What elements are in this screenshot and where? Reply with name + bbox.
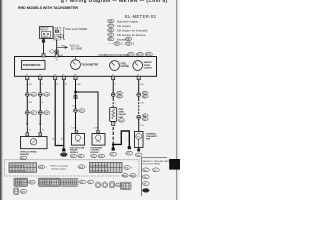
connector face E1 bbox=[121, 182, 132, 190]
note: To EL-ILL / EL-CHIME bbox=[70, 46, 83, 51]
reference band dotted border bbox=[5, 160, 140, 176]
wire temp gauge vertical bbox=[138, 80, 140, 132]
legend line 6: asterisk note bbox=[109, 42, 135, 46]
ground oval label dark bbox=[60, 153, 67, 157]
connector on temp wire row1 bbox=[137, 93, 141, 97]
C1 oval label bbox=[29, 180, 36, 184]
legend line 1: GA gasoline engine bbox=[108, 19, 139, 23]
svg-text:GAUGE: GAUGE bbox=[144, 66, 153, 69]
svg-text:REFER TO THE LAST PAGE: REFER TO THE LAST PAGE bbox=[143, 160, 171, 163]
B4 label bbox=[91, 147, 105, 158]
svg-text:CE: CE bbox=[109, 33, 113, 37]
svg-text:To EL-ILL,: To EL-ILL, bbox=[70, 46, 81, 48]
svg-text:F22: F22 bbox=[143, 115, 146, 117]
label Y/G bbox=[140, 84, 144, 86]
label w4 B lower bbox=[61, 138, 63, 140]
label Y/G low bbox=[140, 125, 144, 127]
meter top terminal stub left bbox=[42, 54, 45, 57]
oval label ground 1 bbox=[110, 152, 117, 156]
band connector grid block 1 bbox=[9, 163, 37, 173]
label L/OR w6 bbox=[93, 128, 98, 130]
svg-text:GA: GA bbox=[109, 19, 113, 23]
svg-text:GAUGE: GAUGE bbox=[118, 113, 126, 116]
junction dot fuel ground bbox=[112, 143, 115, 146]
svg-text:RHD MODELS WITH TACHOMETER: RHD MODELS WITH TACHOMETER bbox=[18, 6, 78, 10]
legend line 4: CD engine for Europe bbox=[108, 33, 146, 37]
meter bottom stub temp bbox=[137, 76, 140, 79]
wire w3 vertical long bbox=[55, 80, 64, 146]
svg-text:1 2 3 4 5: 1 2 3 4 5 bbox=[16, 181, 23, 183]
label P/B near meter entry bbox=[59, 55, 63, 57]
connector on fuel wire bbox=[111, 93, 115, 97]
oval label on w5 bbox=[79, 109, 85, 113]
connector oval M26 bbox=[145, 53, 152, 57]
svg-text:EL-METER-03: EL-METER-03 bbox=[125, 14, 156, 19]
wire w1 vertical bbox=[26, 80, 28, 124]
svg-text:1 2 3 4 5 6 7 8 9 10: 1 2 3 4 5 6 7 8 9 10 bbox=[90, 164, 108, 167]
thermal transmitter box bbox=[135, 132, 144, 148]
label Y/G below temp connector bbox=[140, 102, 144, 104]
water temp gauge bbox=[133, 61, 153, 71]
label Y below fuel connector bbox=[115, 102, 117, 104]
svg-text:: Except: : Except bbox=[115, 37, 126, 41]
combination meter box bbox=[15, 57, 157, 77]
refer oval F1 bbox=[142, 189, 149, 193]
meter bottom stub w4 bbox=[62, 76, 65, 79]
svg-text:F22: F22 bbox=[117, 96, 120, 98]
label L/OR w5 bbox=[72, 128, 77, 130]
svg-text:CE: CE bbox=[126, 37, 130, 41]
D1 oval label bbox=[80, 180, 86, 184]
svg-text:: Refer to last page: : Refer to last page bbox=[50, 165, 69, 168]
svg-text:SENSOR: SENSOR bbox=[20, 154, 29, 156]
svg-text:MODELS: MODELS bbox=[70, 152, 79, 154]
svg-text:Refer to EL-POWER.: Refer to EL-POWER. bbox=[66, 28, 88, 31]
vehicle speed sensor terminals bbox=[26, 133, 42, 136]
page title: RHD MODELS WITH TACHOMETER bbox=[18, 6, 78, 10]
svg-text:TER: TER bbox=[146, 139, 151, 141]
connector oval M24 bbox=[127, 53, 134, 57]
refer note text bbox=[143, 160, 171, 166]
pin numbers bbox=[26, 59, 139, 76]
wire w2 vertical bbox=[39, 80, 41, 124]
svg-text:2 ,: 2 , bbox=[121, 42, 124, 46]
connector square on w5 bbox=[74, 96, 77, 99]
svg-text:11 12 13 14 15 16: 11 12 13 14 15 16 bbox=[10, 170, 27, 173]
svg-text:M24: M24 bbox=[117, 93, 121, 95]
meter bottom stub w5 bbox=[74, 76, 77, 79]
svg-text:1 2 3 4 5 6 7 8: 1 2 3 4 5 6 7 8 bbox=[40, 181, 52, 183]
oval label w1 row1 bbox=[30, 93, 36, 97]
label w1 mid bbox=[29, 102, 33, 104]
connector on w2 row1 bbox=[38, 93, 42, 97]
fuse block dashed box bbox=[54, 27, 61, 40]
connector face D1 dark bbox=[61, 179, 79, 187]
branch wire to EL-ILL with arrow bbox=[57, 46, 68, 49]
wire w5 vertical bbox=[75, 80, 77, 131]
svg-text:: CD engine for Europe: : CD engine for Europe bbox=[115, 33, 146, 37]
svg-text:g / Wiring Diagram — METER — (: g / Wiring Diagram — METER — (Cont'd) bbox=[61, 0, 168, 3]
svg-text:9 10 11 12 13: 9 10 11 12 13 bbox=[40, 184, 51, 186]
meter top terminal stub right bbox=[55, 54, 58, 57]
vehicle speed sensor label bbox=[20, 151, 37, 160]
connector on ignition wire bbox=[42, 39, 45, 42]
fuel ground terminal 2 bbox=[128, 146, 131, 149]
svg-text:: CD engine: : CD engine bbox=[115, 24, 131, 28]
label w1 low bbox=[29, 130, 31, 132]
sender box B4 bbox=[92, 131, 105, 146]
D2 oval label bbox=[88, 180, 94, 184]
svg-text:ON/ST: ON/ST bbox=[43, 36, 48, 38]
refer box top line bbox=[141, 157, 167, 159]
band text block 2 bbox=[50, 165, 69, 171]
svg-text:P/B: P/B bbox=[59, 55, 63, 57]
svg-text:L/OR: L/OR bbox=[72, 128, 77, 130]
oval label thermal bbox=[135, 153, 142, 157]
diagram code EL-METER-03 bbox=[125, 14, 156, 19]
branch wire to w6 bbox=[76, 92, 99, 130]
meter bottom stub w1 bbox=[26, 76, 29, 79]
brace bracket bbox=[64, 27, 65, 39]
wire below fuel unit dashed bbox=[112, 125, 114, 143]
speedometer box bbox=[22, 61, 46, 70]
oval label w2 row2 bbox=[44, 111, 50, 115]
svg-text:GAUGE: GAUGE bbox=[121, 65, 130, 68]
oval label ground 2 bbox=[126, 151, 133, 155]
oval labels on fuel wire bbox=[117, 91, 123, 98]
svg-text:Y/G: Y/G bbox=[140, 125, 144, 127]
svg-text:L/W: L/W bbox=[77, 84, 81, 86]
connector oval label left of fuse wire bbox=[50, 50, 54, 53]
meter bottom stub w2 bbox=[39, 76, 42, 79]
page right edge line bbox=[176, 0, 178, 200]
wire from fuse down bbox=[56, 40, 58, 54]
w1 arrowhead into sensor bbox=[26, 123, 28, 133]
oval labels temp row1 bbox=[142, 91, 148, 98]
connector oval near fuse bbox=[59, 35, 64, 39]
connector on w1 row2 bbox=[25, 111, 29, 115]
meter bottom stub w3 bbox=[54, 76, 57, 79]
label w5 L/W bbox=[77, 84, 81, 86]
wire w4 vertical long bbox=[63, 80, 65, 149]
svg-text:TACHOMETER: TACHOMETER bbox=[82, 64, 99, 67]
band oval 1 bbox=[38, 165, 47, 169]
svg-text:L/OR: L/OR bbox=[93, 128, 98, 130]
connector circle on fuse wire bbox=[55, 50, 59, 54]
connector circle D3 bbox=[95, 182, 101, 188]
oval labels temp row2 bbox=[142, 114, 148, 121]
svg-text:FUEL: FUEL bbox=[121, 63, 128, 65]
svg-text:THERMAL: THERMAL bbox=[146, 132, 157, 135]
label w4 B bbox=[65, 84, 67, 86]
E group ovals bbox=[122, 174, 128, 178]
svg-text:TRANSMIT-: TRANSMIT- bbox=[146, 135, 158, 138]
legend line 2: CD engine bbox=[108, 24, 132, 28]
tachometer bbox=[71, 57, 99, 70]
connector face D5 bbox=[110, 182, 115, 188]
label P/B on branch bbox=[61, 45, 65, 47]
fuel gauge bbox=[110, 61, 130, 71]
meter bottom stub fuel bbox=[112, 76, 115, 79]
svg-text:Y/G: Y/G bbox=[140, 102, 144, 104]
svg-text:SPEEDOMETER: SPEEDOMETER bbox=[23, 65, 41, 67]
svg-text:EC: EC bbox=[109, 37, 113, 41]
C3 oval label bbox=[20, 190, 27, 194]
fuel tank gauge unit label bbox=[118, 109, 126, 122]
svg-text:F14: F14 bbox=[143, 119, 146, 121]
branch junction on w5 bbox=[74, 91, 76, 93]
legend line 3: CD engine for Australia bbox=[108, 28, 148, 32]
running header (clipped at top) bbox=[61, 0, 168, 3]
connector face C1 bbox=[14, 178, 28, 186]
fuel tank gauge unit (resistor) bbox=[110, 108, 117, 122]
svg-text:F22: F22 bbox=[143, 96, 146, 98]
svg-text:(FOLDOUT PAGE) .: (FOLDOUT PAGE) . bbox=[143, 162, 162, 165]
svg-text:EL: EL bbox=[171, 162, 177, 167]
thermal transmitter label bbox=[146, 132, 158, 140]
note: Refer to EL-POWER bbox=[66, 28, 88, 31]
label L/W mid bbox=[72, 105, 76, 107]
refer oval E1 bbox=[152, 168, 159, 172]
svg-text:(Foldout page) .: (Foldout page) . bbox=[52, 168, 68, 171]
wire from ignition switch down bbox=[43, 39, 45, 54]
label w3 B lower bbox=[52, 138, 54, 140]
svg-text:EL-CHIME: EL-CHIME bbox=[71, 49, 82, 51]
D5 oval label bbox=[116, 183, 122, 187]
svg-text:CD: CD bbox=[109, 24, 113, 28]
band oval 3 bbox=[124, 166, 130, 170]
svg-text:M24: M24 bbox=[143, 93, 147, 95]
B3 label bbox=[70, 146, 85, 158]
fuse 10A bbox=[54, 28, 61, 41]
refer oval E6 bbox=[142, 182, 149, 186]
svg-text:L/W: L/W bbox=[72, 105, 76, 107]
combination meter label bbox=[98, 53, 128, 57]
svg-text:(J/B): (J/B) bbox=[54, 38, 58, 40]
svg-text:G/Y: G/Y bbox=[29, 102, 33, 104]
ignition switch box bbox=[40, 27, 54, 39]
svg-text:1 2 3 4 5 6 7 8 9: 1 2 3 4 5 6 7 8 9 bbox=[10, 165, 25, 168]
refer oval M1 bbox=[142, 168, 151, 172]
w2 arrowhead into sensor bbox=[39, 123, 41, 133]
connector on w5 bbox=[74, 109, 78, 113]
connector circle D4 bbox=[102, 182, 108, 188]
svg-text:MODULE: MODULE bbox=[91, 152, 100, 154]
svg-text:G/Y: G/Y bbox=[29, 84, 33, 86]
connector face C3 small bbox=[14, 188, 19, 194]
svg-text:Y/G: Y/G bbox=[140, 84, 144, 86]
svg-text:26: 26 bbox=[56, 59, 58, 61]
fuel ground terminal 1 bbox=[112, 144, 115, 150]
svg-text:GA: GA bbox=[115, 42, 119, 46]
svg-text:4 5 6: 4 5 6 bbox=[122, 187, 126, 189]
sender box B3 bbox=[72, 131, 85, 146]
refer box left line bbox=[140, 158, 142, 196]
svg-text:6 7 8 9 0: 6 7 8 9 0 bbox=[16, 184, 23, 186]
EL section tab bbox=[169, 159, 180, 170]
label w2 G bbox=[42, 84, 44, 86]
label w2 low bbox=[42, 130, 44, 132]
svg-text:WATER: WATER bbox=[144, 61, 152, 64]
connector face C2 bbox=[39, 178, 61, 186]
label Y bbox=[115, 84, 117, 86]
refer oval M5 bbox=[142, 175, 149, 179]
fuel ground branch pi shape bbox=[113, 131, 129, 147]
connector on temp wire row2 bbox=[137, 115, 141, 119]
page left edge shadow bbox=[0, 0, 4, 200]
connector on w1 row1 bbox=[25, 93, 29, 97]
svg-text:CD: CD bbox=[126, 42, 130, 46]
connector on w2 row2 bbox=[38, 111, 42, 115]
svg-text:: CD engine for Australia: : CD engine for Australia bbox=[115, 28, 148, 32]
ground terminal bbox=[62, 149, 65, 152]
fuel unit bottom stub bbox=[112, 122, 115, 126]
E group oval 2 bbox=[130, 174, 136, 178]
label w2 mid bbox=[42, 102, 44, 104]
oval label w1 row2 bbox=[30, 111, 36, 115]
connector oval M25 bbox=[136, 53, 143, 57]
band text tail bbox=[131, 168, 133, 170]
svg-text:CA: CA bbox=[109, 28, 113, 32]
svg-text:: Gasoline engine: : Gasoline engine bbox=[115, 19, 138, 23]
svg-text:1 2 3: 1 2 3 bbox=[122, 185, 126, 187]
legend line 5: except CE bbox=[108, 37, 132, 41]
svg-text:TANK: TANK bbox=[118, 111, 124, 114]
wire fuel gauge vertical bbox=[112, 80, 114, 107]
label w3 B bbox=[57, 84, 59, 86]
oval label w2 row1 bbox=[44, 93, 50, 97]
svg-text:11 12 13 14 15 16 17: 11 12 13 14 15 16 17 bbox=[90, 169, 110, 172]
label w1 G/Y bbox=[29, 84, 33, 86]
band connector grid block bbox=[90, 163, 123, 173]
vehicle speed sensor box bbox=[21, 137, 48, 149]
thermal transmitter terminal bbox=[137, 148, 140, 152]
band oval 2 bbox=[78, 165, 87, 169]
